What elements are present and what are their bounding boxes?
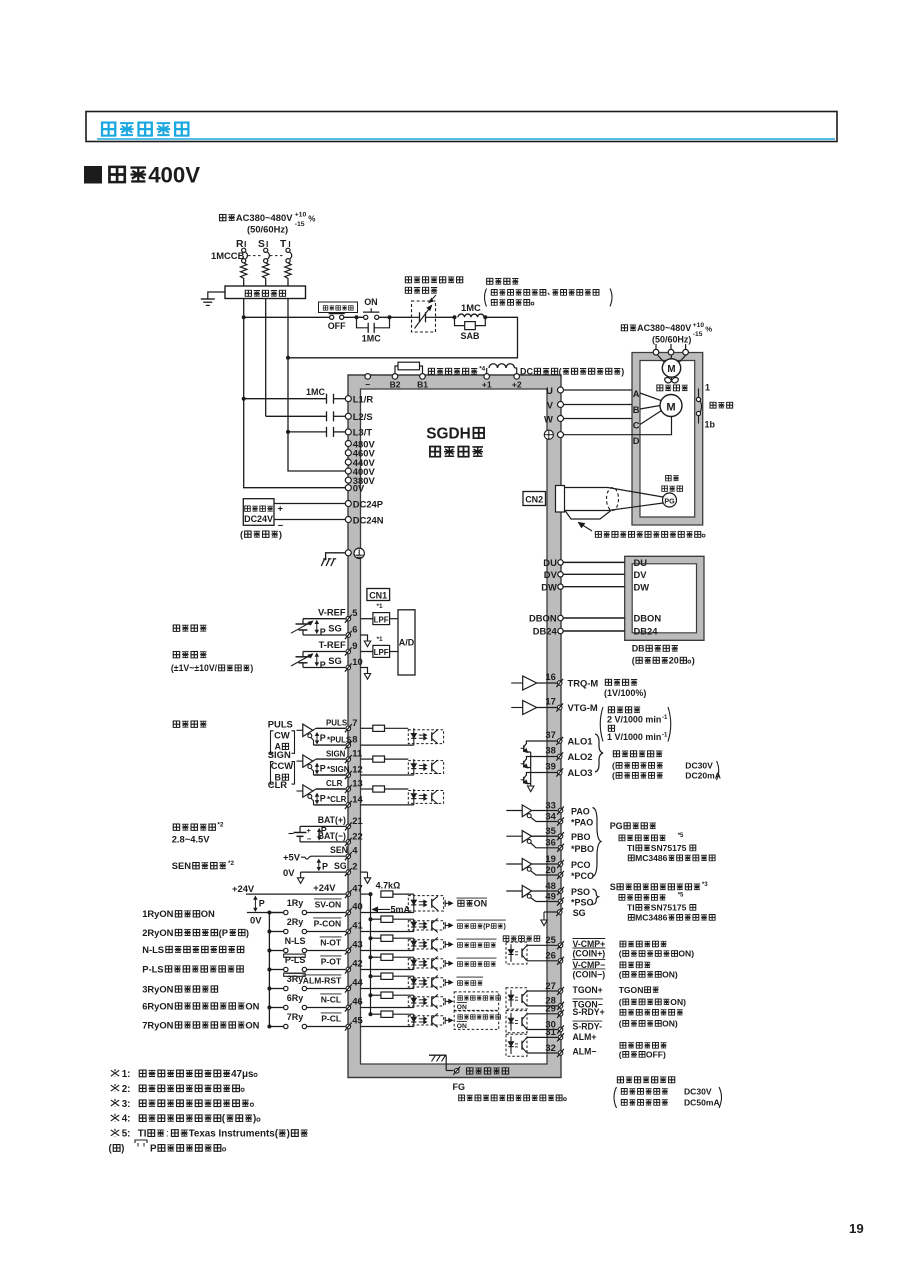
label 再生电阻单元*4	[428, 366, 485, 375]
junction T at L3	[286, 430, 290, 434]
title box 标准接线图	[86, 112, 837, 142]
svg-text:MC3486: MC3486	[635, 913, 668, 923]
wire BAT(-) pin 22	[300, 831, 363, 846]
svg-text:SN75175: SN75175	[651, 903, 687, 913]
svg-text:P-LS: P-LS	[142, 963, 163, 974]
alarm code output transistors	[521, 741, 558, 792]
output 38 ALO2	[545, 745, 592, 763]
fan motor M	[658, 355, 686, 383]
ground at noise filter	[201, 292, 225, 305]
svg-text:CLR: CLR	[326, 779, 343, 788]
svg-text:32: 32	[545, 1042, 555, 1053]
wire D to motor	[640, 417, 672, 435]
svg-text:PBO: PBO	[571, 832, 590, 842]
svg-text:DW: DW	[634, 581, 650, 592]
filter LPF	[373, 603, 398, 624]
svg-text:ALM-RST: ALM-RST	[303, 976, 342, 986]
terminal B2	[390, 374, 401, 390]
svg-text:7RyON: 7RyON	[142, 1019, 173, 1030]
svg-text:*5: *5	[678, 893, 684, 899]
twisted pair mark P	[316, 621, 318, 633]
terminal +1	[482, 374, 492, 390]
svg-text:+10: +10	[295, 212, 307, 219]
phase labels A B C D	[633, 388, 640, 446]
svg-text:14: 14	[352, 794, 363, 805]
position command input SIGN	[268, 749, 314, 784]
svg-text:): )	[250, 663, 253, 673]
wire R to 0V tap	[244, 399, 346, 488]
svg-text:47μs: 47μs	[231, 1069, 254, 1080]
svg-text:TGON: TGON	[619, 985, 644, 995]
label 速度指令	[173, 625, 179, 631]
arrow and label P-OT	[445, 958, 496, 967]
brace PSO group	[593, 889, 599, 905]
svg-text:3RyON: 3RyON	[142, 983, 173, 994]
svg-text:): )	[504, 924, 506, 931]
svg-text:-1: -1	[662, 715, 668, 721]
svg-text:PG: PG	[610, 821, 623, 831]
svg-text:N-LS: N-LS	[285, 936, 306, 946]
svg-text:(: (	[612, 771, 615, 781]
svg-text:38: 38	[545, 745, 555, 756]
pushbutton ON	[363, 297, 379, 319]
svg-text:(1V/100%): (1V/100%)	[604, 688, 646, 698]
svg-text:ALM+: ALM+	[573, 1032, 597, 1042]
svg-text:DU: DU	[634, 557, 648, 568]
svg-text:+: +	[307, 826, 312, 835]
svg-text:AC380~480V: AC380~480V	[637, 323, 691, 333]
label PG分频输出 block	[610, 821, 715, 863]
motor block gray frame	[632, 353, 703, 526]
brace PG outputs group	[593, 808, 602, 877]
svg-text:A/D: A/D	[399, 638, 415, 648]
svg-text:D: D	[633, 435, 640, 446]
svg-text:C: C	[633, 419, 640, 430]
wire OFF-ON	[344, 316, 364, 318]
svg-text:*2: *2	[228, 860, 234, 867]
optocoupler PULS	[408, 728, 443, 745]
resistor input SIGN	[373, 756, 385, 762]
label 位置指令	[173, 721, 179, 727]
svg-text:ON: ON	[245, 1000, 259, 1011]
thermostat contact 1 1b	[696, 382, 715, 429]
terminal DW	[541, 581, 563, 592]
svg-text:42: 42	[352, 958, 362, 969]
svg-text:): )	[287, 1129, 290, 1140]
svg-text:N-CL: N-CL	[321, 995, 341, 1005]
svg-text:SG: SG	[328, 655, 342, 666]
wire to optocoupler	[385, 758, 409, 760]
label 光电耦合器输出 block	[614, 1077, 722, 1108]
svg-text:-1: -1	[662, 732, 668, 738]
svg-text:29: 29	[545, 1003, 555, 1014]
svg-text:SGDH: SGDH	[426, 426, 470, 443]
label 警报处理及电机过热处理	[405, 277, 462, 303]
contacts 1MC on L1 L2 L3	[244, 387, 346, 437]
arrow and label P-CL	[445, 1011, 500, 1030]
svg-text:8: 8	[352, 734, 357, 745]
svg-text:PCO: PCO	[571, 860, 590, 870]
svg-text:ON: ON	[201, 908, 215, 919]
output 39 ALO3	[545, 761, 592, 779]
terminal PE right	[544, 430, 563, 439]
svg-text:43: 43	[352, 939, 362, 950]
wire SIGN pin 11	[313, 748, 373, 764]
regen resistor unit loop B2-B1	[395, 362, 423, 374]
optocoupler P-CON	[408, 918, 443, 932]
wire T-REF	[303, 639, 373, 655]
svg-text:+1: +1	[482, 380, 492, 390]
svg-text:%: %	[705, 325, 712, 334]
svg-text:(: (	[240, 529, 244, 540]
svg-text:SN75175: SN75175	[651, 843, 687, 853]
svg-text:1Ry: 1Ry	[287, 898, 303, 908]
svg-text:34: 34	[545, 810, 556, 821]
wire P-OT pin 42	[307, 956, 414, 974]
svg-text:TI: TI	[138, 1129, 147, 1140]
svg-text:ON: ON	[457, 1004, 467, 1011]
terminal 460V	[345, 448, 375, 459]
svg-text:41: 41	[352, 920, 362, 931]
svg-text:*4: *4	[479, 366, 485, 373]
svg-text:): )	[253, 1114, 256, 1125]
svg-text:DV: DV	[544, 569, 558, 580]
svg-text:CW: CW	[274, 729, 290, 740]
wire phase T vertical	[287, 299, 289, 432]
label 速度监视 block	[600, 707, 671, 742]
ground inside connector shell	[429, 1055, 454, 1070]
resistor input P-OT	[369, 954, 414, 960]
svg-text:1MC: 1MC	[306, 387, 325, 397]
arrow and label N-OT	[445, 939, 496, 948]
svg-text:*2: *2	[217, 822, 223, 829]
terminal L3/T	[345, 427, 372, 438]
terminal 380V	[345, 475, 375, 486]
svg-text:19: 19	[849, 1221, 864, 1236]
svg-text:4: 4	[352, 845, 358, 856]
encoder cable	[565, 488, 664, 520]
connector CN2 plug	[556, 486, 565, 513]
svg-text:SEN: SEN	[172, 860, 192, 871]
svg-text:ALO2: ALO2	[568, 751, 593, 762]
junction coil left	[453, 315, 457, 319]
arrow and label P-CON	[445, 920, 506, 931]
svg-text:N-OT: N-OT	[320, 938, 342, 948]
svg-text:47: 47	[352, 883, 362, 894]
wire PE to motor D	[563, 434, 640, 436]
speed/torque input source symbol	[291, 619, 313, 635]
photocoupler output pins 31/32	[506, 1026, 564, 1057]
surge absorber SAB	[455, 317, 486, 341]
svg-text:33: 33	[545, 799, 555, 810]
svg-text:): )	[279, 529, 282, 540]
label 转矩指令	[171, 651, 254, 673]
svg-text:1MC: 1MC	[362, 334, 381, 344]
svg-text:0V: 0V	[353, 483, 365, 494]
terminal DBON	[529, 613, 563, 624]
label SEN信号输入*2	[172, 860, 235, 871]
svg-text:P: P	[320, 660, 326, 670]
svg-text:DV: DV	[634, 569, 648, 580]
svg-text:27: 27	[545, 980, 555, 991]
svg-text:*1: *1	[377, 636, 383, 643]
wire *PULS pin 8	[314, 734, 414, 750]
resistor input PULS	[373, 725, 385, 731]
wire N-CL pin 46	[307, 994, 414, 1012]
relay contact 2Ry	[267, 917, 306, 934]
svg-text:PG: PG	[664, 497, 675, 505]
svg-text:BAT(−): BAT(−)	[318, 831, 346, 841]
converter A/D box	[398, 610, 415, 675]
label AC supply 三相AC380~480V	[220, 212, 316, 235]
svg-text:ON): ON)	[662, 1019, 678, 1029]
connector CN1 label	[367, 589, 390, 601]
optocoupler CLR	[408, 789, 443, 805]
terminal DU	[543, 557, 563, 568]
svg-text:-15: -15	[693, 331, 703, 338]
motor supply stubs	[653, 344, 688, 355]
svg-text:7: 7	[352, 717, 357, 728]
svg-text:N-LS: N-LS	[142, 944, 164, 955]
svg-text:DC50mA: DC50mA	[684, 1098, 720, 1108]
line driver output PCO/*PCO	[506, 853, 594, 881]
label <-5mA	[373, 904, 411, 914]
svg-text:9: 9	[352, 640, 357, 651]
svg-text:*PCO: *PCO	[571, 871, 594, 881]
noise filter box 噪音滤波器	[225, 286, 306, 299]
svg-text:(COIN+): (COIN+)	[573, 949, 606, 959]
svg-text:DW: DW	[541, 581, 557, 592]
wire PULS pin 7	[313, 717, 373, 733]
wire U to motor	[563, 389, 632, 391]
svg-text:37: 37	[545, 729, 555, 740]
wire CLR pin 13	[313, 778, 373, 794]
svg-text:ON): ON)	[662, 970, 678, 980]
svg-text:4:: 4:	[122, 1114, 131, 1125]
svg-text:-15: -15	[295, 221, 305, 228]
brace ALO group	[595, 734, 603, 772]
label 连接器壳体	[467, 1068, 473, 1074]
svg-text:(: (	[619, 1050, 622, 1060]
twisted pair mark P	[318, 829, 320, 840]
svg-text:OFF): OFF)	[646, 1050, 666, 1060]
svg-text:0V: 0V	[283, 867, 295, 878]
svg-text:21: 21	[352, 815, 362, 826]
coil 1MC	[458, 302, 484, 317]
arrow and label SV-ON	[445, 898, 487, 908]
wire SG output	[541, 908, 586, 926]
terminal +2	[512, 374, 522, 390]
label 转矩监视	[604, 679, 646, 698]
wire thermal-1MC coil	[436, 316, 455, 318]
svg-text:17: 17	[545, 696, 555, 707]
svg-text:+24V: +24V	[232, 883, 255, 894]
label 风扇电机	[657, 385, 663, 391]
terminal U	[546, 385, 563, 396]
svg-text:Texas Instruments(: Texas Instruments(	[189, 1129, 279, 1140]
terminal W	[544, 413, 564, 424]
svg-text:ON: ON	[457, 1023, 467, 1030]
svg-text:ALM−: ALM−	[573, 1047, 597, 1057]
svg-text:SEN: SEN	[330, 845, 348, 855]
svg-text:46: 46	[352, 996, 362, 1007]
pushbutton OFF	[328, 314, 346, 331]
wire DW	[563, 586, 625, 588]
svg-text:P: P	[320, 794, 326, 804]
svg-text:6RyON: 6RyON	[142, 1000, 173, 1011]
footnotes	[109, 1069, 308, 1155]
svg-text:ON: ON	[364, 297, 377, 307]
svg-text:V-REF: V-REF	[318, 606, 346, 617]
svg-text:): )	[621, 367, 624, 377]
svg-text:+5V: +5V	[283, 852, 301, 863]
svg-text:2:: 2:	[122, 1084, 131, 1095]
svg-text:1: 1	[705, 382, 710, 392]
wire +24V pin 47	[232, 882, 371, 898]
svg-text:VTG-M: VTG-M	[568, 702, 598, 713]
svg-text:S-RDY+: S-RDY+	[573, 1007, 605, 1017]
relay contact 6Ry	[267, 993, 306, 1010]
svg-text:L3/T: L3/T	[353, 427, 373, 438]
svg-text:DC24V: DC24V	[244, 514, 273, 524]
svg-text:*1: *1	[377, 603, 383, 610]
bus for input resistors	[370, 894, 372, 1014]
optocoupler SIGN	[408, 759, 443, 775]
wire *CLR pin 14	[314, 794, 414, 810]
arrow and label N-CL	[445, 992, 500, 1011]
wire V to motor	[563, 404, 632, 406]
terminal DV	[544, 569, 563, 580]
svg-text:20: 20	[545, 864, 555, 875]
left labels relay functions	[142, 908, 259, 1030]
wire V-REF	[303, 606, 373, 622]
svg-text:SG: SG	[334, 861, 347, 871]
svg-text:1:: 1:	[122, 1069, 131, 1080]
svg-text:(: (	[632, 656, 635, 666]
terminal 0V	[345, 483, 365, 494]
svg-text:(50/60Hz): (50/60Hz)	[247, 224, 288, 235]
junction R-bus	[242, 315, 246, 319]
svg-text:−: −	[365, 380, 370, 390]
relay contact N-LS	[267, 936, 306, 957]
wire DC24P	[274, 503, 345, 505]
svg-text:SIGN: SIGN	[268, 749, 291, 760]
svg-text:DB24: DB24	[634, 626, 659, 637]
svg-text:DC24N: DC24N	[353, 514, 384, 525]
svg-text:(: (	[619, 970, 622, 980]
terminal 480V	[345, 438, 375, 449]
svg-text:16: 16	[545, 671, 555, 682]
terminal DB24	[533, 626, 564, 637]
output 37 ALO1	[545, 729, 592, 747]
svg-text:26: 26	[545, 950, 555, 961]
line driver output PSO/*PSO	[506, 880, 593, 908]
svg-text:PULS: PULS	[268, 718, 293, 729]
twisted pair mark P	[316, 654, 318, 666]
wire ALM-RST pin 44	[302, 975, 414, 993]
twisted pair mark P	[318, 860, 320, 871]
svg-text:ON): ON)	[678, 949, 694, 959]
svg-text:CN1: CN1	[369, 590, 387, 600]
terminal -	[365, 374, 371, 390]
svg-text:DC24P: DC24P	[353, 498, 383, 509]
svg-text:*SIGN: *SIGN	[327, 765, 350, 774]
svg-text:ON): ON)	[670, 997, 686, 1007]
svg-text:5: 5	[352, 607, 357, 618]
phase labels R S T	[236, 239, 287, 250]
svg-text:A: A	[633, 388, 640, 399]
svg-text:(50/60Hz): (50/60Hz)	[652, 335, 691, 345]
svg-text:LPF: LPF	[374, 648, 389, 657]
svg-text:SV-ON: SV-ON	[315, 900, 342, 910]
svg-text:2: 2	[352, 861, 357, 872]
svg-text:10: 10	[352, 656, 362, 667]
svg-text:1b: 1b	[705, 420, 716, 430]
svg-text:4.7k: 4.7k	[376, 880, 393, 890]
svg-text:35: 35	[545, 825, 555, 836]
optocoupler ALM-RST	[408, 975, 443, 989]
svg-text:31: 31	[545, 1026, 555, 1037]
label 警报代码输出 block	[612, 751, 721, 781]
svg-text:36: 36	[545, 837, 555, 848]
svg-text:3:: 3:	[122, 1099, 131, 1110]
svg-text:7Ry: 7Ry	[287, 1012, 303, 1022]
svg-text:(P: (P	[219, 927, 228, 938]
label 恒温器	[710, 402, 716, 408]
svg-text:PAO: PAO	[571, 807, 590, 817]
photocoupler output pins 29/30	[506, 1003, 564, 1034]
svg-text:45: 45	[352, 1015, 362, 1026]
junction after ON	[388, 315, 392, 319]
line driver output PAO/*PAO	[506, 799, 593, 827]
wire *SIGN pin 12	[314, 764, 414, 780]
svg-text:DC: DC	[520, 367, 533, 377]
svg-text:(: (	[222, 1114, 226, 1125]
wire ON-thermal	[379, 316, 412, 318]
svg-text:P-CON: P-CON	[314, 919, 342, 929]
svg-text:*PSO: *PSO	[571, 898, 593, 908]
wire DV	[563, 573, 625, 575]
wire control bus	[244, 316, 330, 318]
svg-text:M: M	[666, 401, 675, 413]
wire phase S vertical	[265, 299, 267, 417]
svg-text:+24V: +24V	[313, 882, 336, 893]
svg-text:(: (	[619, 997, 622, 1007]
terminal PE with earth	[321, 548, 364, 566]
svg-text:44: 44	[352, 977, 363, 988]
DC reactor loop +1 +2	[487, 364, 517, 375]
position command input CLR	[268, 779, 314, 805]
svg-text:*CLR: *CLR	[327, 795, 347, 804]
svg-text:22: 22	[352, 831, 362, 842]
svg-text:1RyON: 1RyON	[142, 908, 173, 919]
svg-text:SG: SG	[573, 908, 586, 918]
label shield note	[459, 1095, 465, 1101]
svg-text:+10: +10	[693, 322, 705, 329]
terminal L1/R	[345, 394, 373, 405]
terminal 400V	[345, 466, 375, 477]
label SGDH型 伺服单元	[426, 426, 484, 457]
resistor input CLR	[373, 786, 385, 792]
svg-text:TI: TI	[627, 903, 635, 913]
svg-text:): )	[121, 1144, 124, 1155]
optical encoder PG	[662, 475, 683, 507]
svg-text:DC20mA: DC20mA	[685, 771, 721, 781]
photocoupler output pins 27/28	[506, 980, 564, 1010]
svg-text:(: (	[619, 1019, 622, 1029]
svg-text:(P: (P	[483, 924, 490, 931]
svg-text:(COIN−): (COIN−)	[573, 970, 606, 980]
